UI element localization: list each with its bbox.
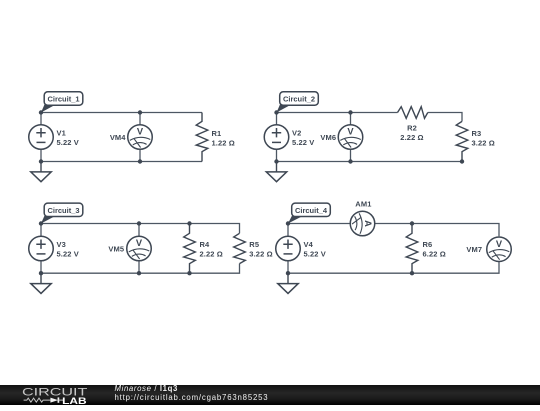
resistor R4 — [184, 224, 196, 274]
ground Circuit_3 — [40, 273, 42, 283]
svg-text:AM1: AM1 — [355, 200, 371, 209]
annotation Circuit_3 — [41, 215, 57, 223]
footer bar — [0, 385, 540, 406]
logo diode — [50, 397, 58, 402]
wire bottom Circuit_3 — [41, 272, 190, 274]
voltmeter VM7 — [487, 237, 512, 262]
annotation Circuit_2 — [277, 104, 293, 113]
wire top-right Circuit_4 — [375, 224, 499, 237]
svg-text:V: V — [496, 239, 503, 249]
node V4 top — [286, 221, 290, 225]
node V2 bottom — [274, 159, 278, 163]
svg-text:V: V — [137, 127, 144, 137]
logo resistor-diode symbol — [24, 398, 51, 402]
svg-text:R11.22 Ω: R11.22 Ω — [212, 129, 235, 148]
wire bottom Circuit_1 — [41, 161, 202, 163]
node VM6 bottom — [348, 159, 352, 163]
svg-text:LAB: LAB — [62, 395, 87, 406]
svg-text:VM6: VM6 — [320, 133, 336, 142]
voltage source V1 — [40, 113, 42, 125]
node VM4 top — [138, 110, 142, 114]
svg-text:Circuit_4: Circuit_4 — [295, 206, 328, 215]
svg-text:R53.22 Ω: R53.22 Ω — [249, 240, 272, 259]
svg-text:Circuit_1: Circuit_1 — [47, 95, 79, 104]
annotation Circuit_1 — [41, 104, 57, 113]
svg-text:R42.22 Ω: R42.22 Ω — [200, 240, 223, 259]
ground Circuit_2 — [276, 162, 278, 172]
svg-text:Circuit_3: Circuit_3 — [47, 206, 79, 215]
svg-text:V: V — [136, 238, 143, 248]
node R4 bottom — [187, 271, 191, 275]
voltmeter VM6 — [350, 113, 352, 125]
footer text block — [115, 384, 269, 403]
svg-text:R22.22 Ω: R22.22 Ω — [400, 124, 423, 143]
wire top-left Circuit_4 — [288, 223, 350, 225]
node VM5 top — [137, 221, 141, 225]
svg-text:V: V — [347, 127, 354, 137]
wire top-right Circuit_3 — [190, 224, 240, 234]
svg-text:V15.22 V: V15.22 V — [57, 128, 79, 147]
resistor R2 — [398, 107, 428, 119]
voltage source V4 — [287, 224, 289, 237]
node V1 top — [39, 110, 43, 114]
svg-text:VM5: VM5 — [108, 245, 124, 254]
node V3 top — [39, 221, 43, 225]
node VM5 bottom — [137, 271, 141, 275]
wire bottom Circuit_2 — [277, 161, 463, 163]
ammeter AM1 — [350, 211, 375, 236]
resistor R1 — [196, 113, 208, 162]
svg-text:V25.22 V: V25.22 V — [292, 128, 314, 147]
voltmeter VM5 — [138, 224, 140, 237]
svg-text:R33.22 Ω: R33.22 Ω — [472, 129, 495, 148]
annotation Circuit_4 — [288, 215, 304, 223]
ground Circuit_1 — [40, 162, 42, 172]
voltage source V2 — [276, 113, 278, 125]
voltage source V3 — [40, 224, 42, 237]
svg-text:VM4: VM4 — [110, 133, 126, 142]
wire top-right Circuit_2 — [428, 113, 462, 122]
node R3 bottom — [460, 159, 464, 163]
svg-text:V45.22 V: V45.22 V — [304, 240, 326, 259]
node V3 bottom — [39, 271, 43, 275]
wire bottom Circuit_4 — [288, 261, 499, 273]
node VM6 top — [348, 110, 352, 114]
voltmeter VM4 — [139, 113, 141, 125]
resistor R3 — [456, 121, 468, 161]
node V4 bottom — [286, 271, 290, 275]
resistor R6 — [406, 224, 418, 274]
node R6 top — [410, 221, 414, 225]
wire bottom-right Circuit_3 — [190, 264, 240, 274]
svg-text:R66.22 Ω: R66.22 Ω — [423, 240, 446, 259]
wire top Circuit_3 — [41, 223, 190, 225]
node R6 bottom — [410, 271, 414, 275]
node V2 top — [274, 110, 278, 114]
node VM4 bottom — [138, 159, 142, 163]
ground Circuit_4 — [287, 273, 289, 283]
node V1 bottom — [39, 159, 43, 163]
svg-text:VM7: VM7 — [466, 245, 482, 254]
wire top Circuit_1 — [41, 112, 202, 114]
node R4 top — [187, 221, 191, 225]
resistor R5 — [234, 233, 246, 263]
CircuitLab logo — [0, 385, 100, 411]
svg-text:A: A — [363, 220, 373, 227]
wire top-left Circuit_2 — [277, 112, 398, 114]
svg-text:Circuit_2: Circuit_2 — [283, 95, 315, 104]
svg-text:V35.22 V: V35.22 V — [57, 240, 79, 259]
